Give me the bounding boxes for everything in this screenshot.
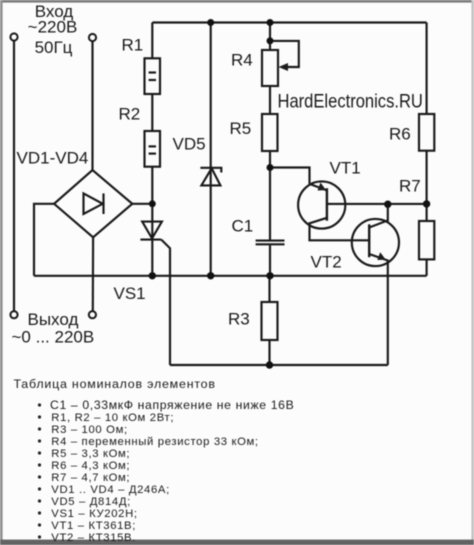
svg-text:~0 ... 220В: ~0 ... 220В xyxy=(12,328,95,347)
svg-text:VS1: VS1 xyxy=(114,284,146,303)
svg-text:R4 – переменный резистор 33 кО: R4 – переменный резистор 33 кОм; xyxy=(51,436,258,448)
svg-text:~220В: ~220В xyxy=(28,18,78,37)
svg-text:50Гц: 50Гц xyxy=(35,38,73,57)
svg-text:VD5 – Д814Д;: VD5 – Д814Д; xyxy=(51,496,131,508)
svg-text:R7: R7 xyxy=(399,177,421,196)
svg-text:R5 – 3,3 кОм;: R5 – 3,3 кОм; xyxy=(51,448,130,460)
svg-text:R6: R6 xyxy=(389,125,411,144)
svg-text:HardElectronics.RU: HardElectronics.RU xyxy=(278,90,423,111)
svg-text:VD5: VD5 xyxy=(173,135,206,154)
svg-text:R1, R2 – 10 кОм 2Вт;: R1, R2 – 10 кОм 2Вт; xyxy=(51,412,174,424)
svg-text:VT2 – КТ315В.: VT2 – КТ315В. xyxy=(51,532,136,544)
svg-text:VD1-VD4: VD1-VD4 xyxy=(17,149,89,168)
svg-text:VT1: VT1 xyxy=(330,159,361,178)
svg-text:VT2: VT2 xyxy=(311,253,342,272)
svg-text:R1: R1 xyxy=(122,36,144,55)
svg-text:Таблица номиналов элементов: Таблица номиналов элементов xyxy=(14,377,216,391)
svg-text:R2: R2 xyxy=(119,105,141,124)
svg-text:R6 – 4,3 кОм;: R6 – 4,3 кОм; xyxy=(51,460,130,472)
svg-text:R3 – 100 Ом;: R3 – 100 Ом; xyxy=(51,424,127,436)
svg-text:R5: R5 xyxy=(230,119,252,138)
svg-text:C1: C1 xyxy=(232,217,254,236)
svg-text:VT1 – КТ361В;: VT1 – КТ361В; xyxy=(51,520,136,532)
svg-text:VD1 .. VD4 – Д246А;: VD1 .. VD4 – Д246А; xyxy=(51,484,170,496)
svg-text:R4: R4 xyxy=(231,51,253,70)
svg-text:R7 – 4,7 кОм;: R7 – 4,7 кОм; xyxy=(51,472,130,484)
svg-text:VS1 – КУ202Н;: VS1 – КУ202Н; xyxy=(51,508,137,520)
svg-text:С1 – 0,33мкФ напряжение не ниж: С1 – 0,33мкФ напряжение не ниже 16В xyxy=(50,398,294,412)
svg-text:R3: R3 xyxy=(228,310,250,329)
svg-text:Выход: Выход xyxy=(28,310,79,329)
